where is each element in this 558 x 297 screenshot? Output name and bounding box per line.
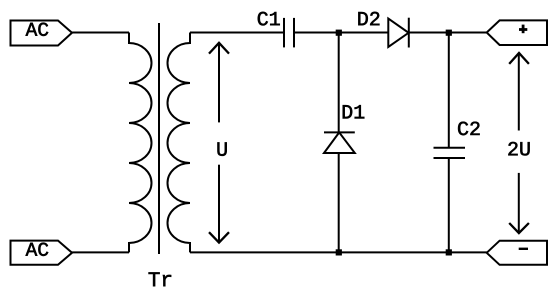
arrowhead 2U bottom bbox=[509, 223, 529, 233]
minus sign bbox=[519, 248, 528, 250]
capacitor C1 plate left bbox=[283, 18, 285, 48]
voltage arrow U shaft lower bbox=[218, 165, 220, 242]
wire node to C2 top plate bbox=[448, 33, 450, 148]
wire AC-top to primary winding bbox=[71, 32, 129, 34]
wire C1 to D2 bbox=[294, 32, 388, 34]
AC terminal top-left tag bbox=[11, 21, 73, 46]
label AC (bottom input) bbox=[26, 243, 49, 256]
diode D1 triangle bbox=[324, 132, 355, 153]
label Tr (transformer) bbox=[149, 272, 172, 286]
bottom rail secondary to minus terminal bbox=[190, 251, 488, 253]
plus sign bbox=[519, 28, 527, 31]
transformer secondary winding bbox=[168, 33, 191, 253]
capacitor C2 plate top bbox=[434, 147, 466, 149]
diode D2 triangle bbox=[388, 19, 408, 47]
capacitor C2 plate bottom bbox=[434, 157, 466, 159]
label C2 bbox=[458, 122, 479, 136]
output terminal minus tag bbox=[487, 241, 547, 265]
label D2 bbox=[358, 12, 379, 25]
wire node to D1 cathode bbox=[338, 33, 340, 133]
arrowhead U bottom bbox=[209, 232, 229, 242]
label AC (top input) bbox=[26, 23, 49, 36]
wire secondary top to C1 bbox=[190, 32, 284, 34]
AC terminal bottom-left tag bbox=[11, 241, 73, 265]
transformer Tr primary winding bbox=[129, 33, 152, 253]
voltage arrow 2U shaft upper bbox=[518, 54, 520, 131]
wire D2 to plus terminal bbox=[409, 32, 488, 34]
label D1 bbox=[343, 105, 364, 118]
arrowhead U top bbox=[209, 43, 229, 54]
output terminal plus tag bbox=[487, 20, 547, 45]
label C1 bbox=[258, 12, 280, 26]
junction dot at D1 bottom bbox=[336, 249, 342, 255]
arrowhead 2U top bbox=[509, 53, 529, 64]
node junction dot at D1 top bbox=[336, 30, 342, 36]
wire AC-bottom to primary winding bbox=[71, 251, 129, 253]
node junction dot at C2 top bbox=[446, 30, 452, 36]
wire D1 anode to bottom rail bbox=[338, 153, 340, 252]
transformer core bbox=[158, 23, 160, 254]
label 2U bbox=[508, 142, 529, 156]
diode D2 cathode bar bbox=[408, 18, 410, 48]
capacitor C1 plate right bbox=[293, 18, 295, 48]
diode D1 cathode bar bbox=[324, 131, 355, 133]
wire C2 to bottom rail bbox=[448, 158, 450, 252]
label U bbox=[217, 142, 226, 155]
voltage arrow 2U shaft lower bbox=[518, 173, 520, 233]
voltage arrow U shaft upper bbox=[218, 44, 220, 123]
junction dot at C2 bottom bbox=[446, 249, 452, 255]
